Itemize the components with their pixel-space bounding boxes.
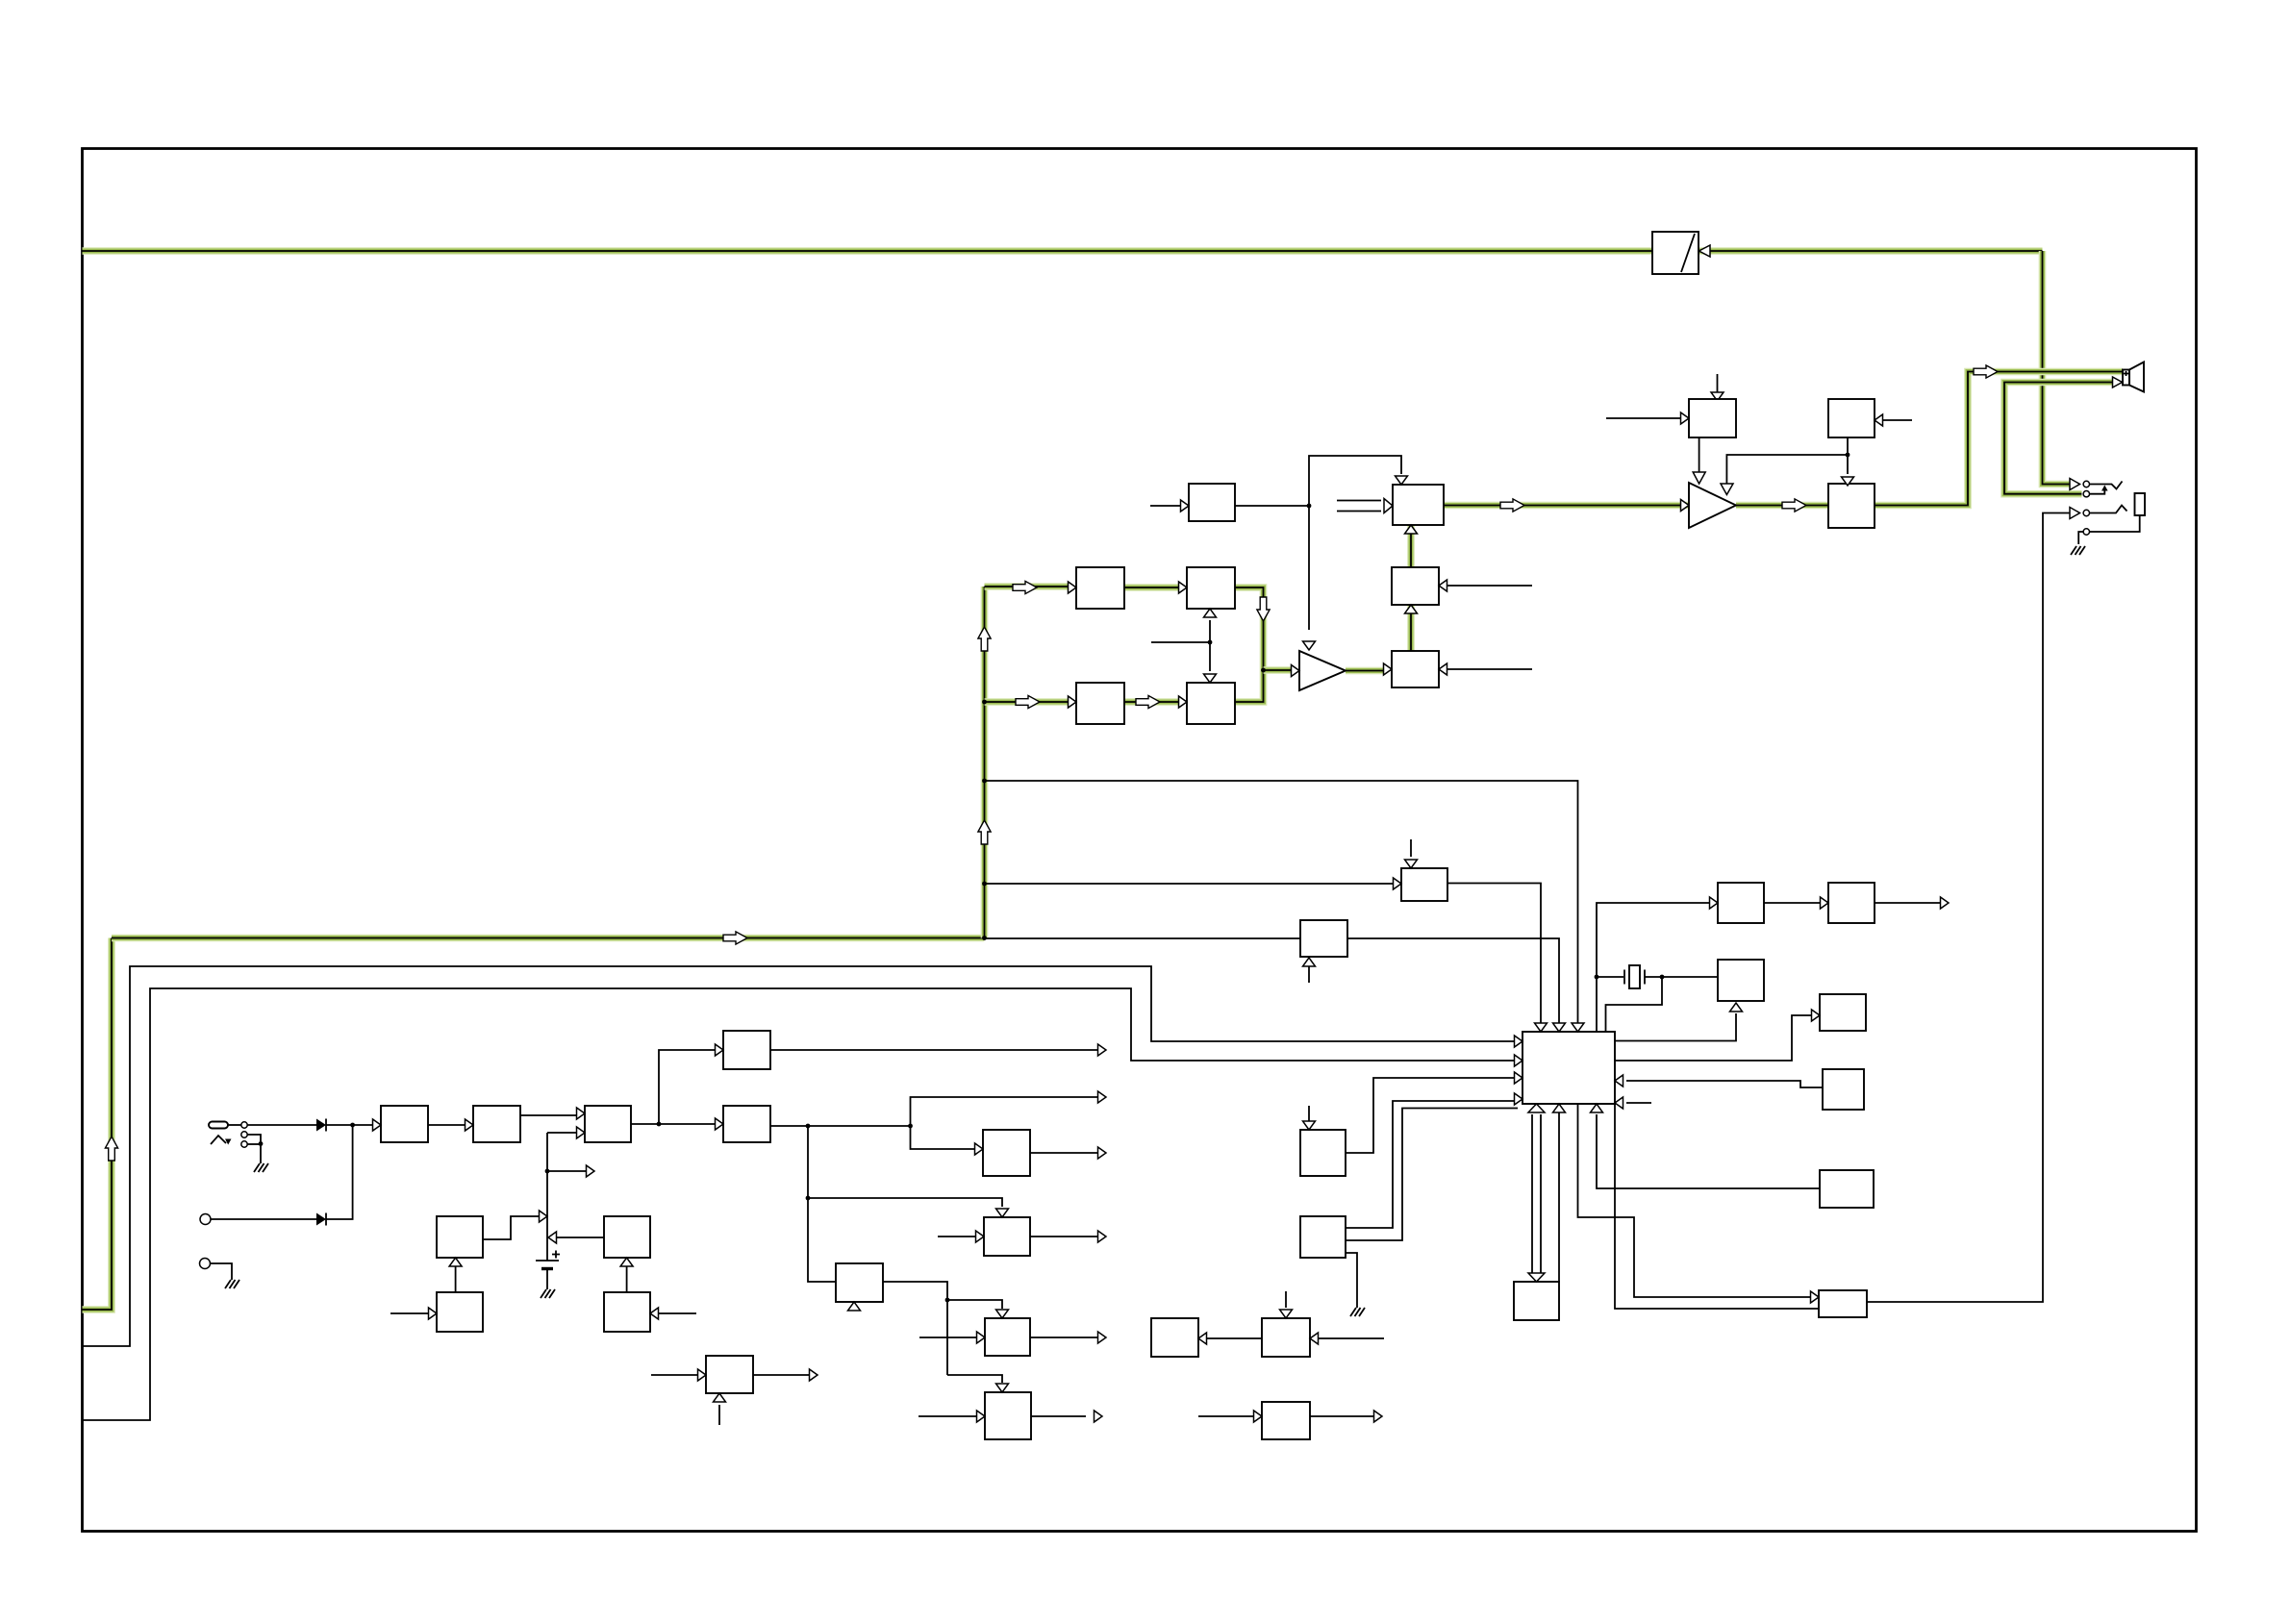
junction crystal right [1660, 975, 1665, 980]
wire G1 output stub [1030, 1337, 1097, 1338]
block U9 [604, 1292, 650, 1332]
block G1 [985, 1318, 1030, 1356]
pin arrow into U23a right [1439, 580, 1447, 591]
pin arrow into G1 [977, 1332, 986, 1343]
block G5 [1262, 1402, 1310, 1439]
wire net AIN lower branch to U19 [985, 698, 1069, 706]
wire IC bottom bus line a [1531, 1114, 1533, 1274]
wire U13 top stem [1410, 839, 1412, 857]
diode D1 [316, 1119, 326, 1132]
wire W1 out to right riser [1867, 513, 2070, 1303]
wire net U20 to corner [1235, 670, 1264, 702]
pin arrow down into G2 [996, 1384, 1009, 1392]
wire U10 output stub [753, 1374, 809, 1376]
wire box U14 out to IC top pin2 [1347, 938, 1559, 1023]
wire jack switch lower contact [248, 1143, 262, 1145]
pin arrow into U11 [975, 1143, 984, 1155]
wire node D up over to U23 top [1309, 456, 1401, 506]
pin arrow from U7 into node [548, 1232, 557, 1243]
block R2 [1300, 1216, 1346, 1258]
wire box U1 to U2 [428, 1124, 465, 1126]
pin arrow up below E2 [1730, 1003, 1743, 1012]
block W1 [1819, 1290, 1867, 1317]
wire junction left to amp top [1726, 455, 1848, 484]
wire box UM out to node D [1235, 505, 1309, 507]
pin arrow into G3 from G4 [1198, 1333, 1207, 1344]
wire net U23a up to U23 [1407, 525, 1415, 567]
jack J2 tip contact [2083, 510, 2089, 515]
IC pin arrow left3 [1515, 1072, 1523, 1084]
pin arrow into U18 [1179, 582, 1188, 593]
wire net SPK_OUT top run from left frame edge to right column [83, 247, 2043, 255]
pin arrow up divider into U18 [1204, 609, 1217, 617]
wire net U17 to U18 [1124, 584, 1178, 591]
flow arrow after U23 [1500, 499, 1524, 512]
pin arrow down into G1 [996, 1310, 1009, 1318]
pin arrow into U3 lower [577, 1127, 586, 1138]
block U22 [1392, 651, 1439, 687]
block V [1820, 1170, 1874, 1208]
wire net AMP_OUT from box U23 to amp U24 [1444, 502, 1689, 510]
wire U23a right input stub [1447, 585, 1532, 587]
pin arrow down into K1 top [1711, 392, 1724, 401]
junction green pin3 [982, 779, 987, 784]
wire IC right in2 stub [1626, 1102, 1651, 1104]
jack J2 sleeve contact [2083, 529, 2089, 535]
IC pin arrow right in1 [1615, 1075, 1623, 1087]
wire E2 bottom to IC right out1 [1615, 1013, 1736, 1041]
block G3 [1151, 1318, 1198, 1357]
stub arrow end G1 [1098, 1332, 1107, 1343]
pin arrow up into U23a [1405, 605, 1418, 613]
wire K1 bottom stem [1699, 437, 1700, 472]
diode D2 [316, 1213, 326, 1226]
wire node C1 vertical to box UT [808, 1126, 836, 1282]
pin arrow into U13 [1394, 878, 1402, 889]
wire R1 top stem [1308, 1106, 1310, 1121]
pin arrow down into U23 top [1396, 476, 1408, 485]
junction node C [908, 1124, 913, 1129]
block U2 [473, 1106, 520, 1142]
wire U8 to U6 riser [455, 1266, 457, 1292]
block U1 rectifier [381, 1106, 428, 1142]
block E1 [1718, 883, 1764, 923]
wire U8 input stub [390, 1312, 428, 1314]
jack J1 switch lever [2090, 482, 2123, 489]
flow arrow on AIN horizontal [723, 932, 747, 944]
jack J1 tip buffer triangle [2070, 479, 2080, 490]
IC pin arrow top2 [1553, 1023, 1566, 1032]
pin arrow into amp U24 [1681, 500, 1690, 512]
wire U14 bottom stub [1308, 958, 1310, 983]
pin arrow down into S [1528, 1273, 1545, 1282]
wire G4 top stem [1285, 1291, 1287, 1308]
wire junction to IC top pin3 [985, 781, 1578, 1023]
pin arrow down into U12 [996, 1209, 1009, 1217]
pin arrow into U3 upper [577, 1108, 586, 1119]
pin arrow up U9 to U7 [620, 1258, 633, 1266]
ground jack [2071, 546, 2085, 555]
wire net amp U21 out to U22 [1346, 667, 1383, 675]
transformer T1 [1652, 232, 1710, 274]
stub arrow end U5 [1098, 1044, 1107, 1056]
wire box U2 to U3 [520, 1114, 576, 1116]
connector contact c1 [241, 1122, 247, 1128]
IC pin arrow top1 [1535, 1023, 1548, 1032]
block E5 [1828, 883, 1875, 923]
block U11 [983, 1130, 1030, 1176]
wire U22 right input stub [1447, 668, 1532, 670]
flow arrow on AIN vertical low [105, 1137, 117, 1161]
wire net AIN upper branch to U17 [985, 583, 1069, 590]
pin arrow into U1 [373, 1119, 382, 1131]
pin arrow into U20 [1179, 696, 1188, 708]
block G2 [985, 1392, 1031, 1439]
wire junction down to UQ top [1847, 455, 1849, 474]
pin arrow down into amp U24 a [1693, 472, 1705, 484]
wire IC bottom bus line b [1540, 1114, 1542, 1274]
junction node A [350, 1123, 355, 1128]
wire G2 output stub [1031, 1415, 1086, 1417]
wire R2 out3 to ground [1346, 1253, 1357, 1308]
flow arrow after amp U24 [1782, 499, 1806, 512]
ground R2 [1350, 1308, 1365, 1316]
wire G5 input stub [1198, 1415, 1253, 1417]
wire net U18 to corner [1235, 587, 1264, 670]
block U8 [437, 1292, 483, 1332]
ground C1 [541, 1289, 555, 1298]
block U3 regulator [585, 1106, 631, 1142]
IC pin arrow top3 [1572, 1023, 1584, 1032]
wire U23 double input line upper [1337, 500, 1381, 502]
jack J1 ring contact [2083, 491, 2089, 497]
wire node B up to U5 [659, 1050, 715, 1124]
wire K1 input stub [1606, 417, 1680, 419]
wire crystal left tap [1597, 976, 1623, 978]
ground J3 [225, 1280, 239, 1288]
block U20 [1187, 683, 1235, 724]
stub arrow end cap tap [587, 1165, 595, 1177]
junction UT branch [945, 1298, 950, 1303]
wire net AIN left vertical from frame [83, 938, 113, 1311]
connector contact c2 [241, 1132, 247, 1137]
stub arrow end U11 [1098, 1147, 1107, 1159]
junction green lower branch [982, 700, 987, 705]
wire input J3 stub to ground [211, 1263, 233, 1280]
pin arrow into U10 [698, 1369, 707, 1381]
pin arrow into U22 [1384, 663, 1393, 675]
wire diode D1 node [248, 1124, 317, 1126]
pin arrow into U17 [1069, 582, 1077, 593]
wire net X junction to box U13 [985, 883, 1394, 885]
IC pin arrow bottom c [1591, 1104, 1603, 1112]
wire net U19 to U20 [1124, 698, 1178, 706]
wire U4 output to node C [770, 1125, 911, 1127]
pin arrow into K1 [1681, 412, 1690, 424]
block K2 [1828, 399, 1875, 437]
pin arrow into U5 [716, 1044, 724, 1056]
block UM [1189, 484, 1235, 521]
flow arrow down after U18 [1257, 597, 1270, 621]
wire branch to G1 top [947, 1300, 1002, 1309]
block U7 [604, 1216, 650, 1258]
pin arrow into K2 right [1875, 414, 1883, 426]
wire U12 output stub [1030, 1236, 1097, 1237]
pin arrow up U8 to U6 [449, 1258, 462, 1266]
pin arrow into U2 [466, 1119, 474, 1131]
wire U6 out jog to cap node [483, 1216, 539, 1239]
op-amp U21 power amp [1299, 651, 1346, 690]
wire box U13 out to IC top pin1 [1447, 884, 1541, 1024]
wire K2 input stub [1883, 419, 1912, 421]
wire IC corner down to W1 second input [1615, 1104, 1819, 1309]
wire net U22 up to U23a [1407, 605, 1415, 651]
block U4 [723, 1106, 770, 1142]
junction divider tap [1208, 640, 1213, 645]
wire node C up branch stub [911, 1097, 1098, 1126]
wire U7 input from cap node [556, 1237, 604, 1238]
wire R1 out to IC pin3 [1346, 1078, 1514, 1153]
IC pin arrow bottom bus [1528, 1104, 1545, 1112]
wire crystal right to E2 [1645, 976, 1718, 978]
jack J1 tip contact [2083, 481, 2089, 487]
jack J2 body [2135, 493, 2146, 515]
pin arrow down into U25 top [1842, 477, 1854, 486]
wire node C down branch to U11 [911, 1126, 975, 1149]
block R1 [1300, 1130, 1346, 1176]
pin arrow into G5 [1254, 1411, 1263, 1422]
wire E5 output stub [1875, 902, 1940, 904]
border frame [83, 149, 2197, 1532]
connector J2 input [200, 1214, 211, 1225]
wire box UT output [883, 1282, 947, 1375]
junction green U13 [982, 882, 987, 887]
pin arrow into U22 right [1439, 663, 1447, 675]
wire U12 input stub [938, 1236, 975, 1237]
junction crystal left [1595, 975, 1599, 980]
wire net SPKP box U25 to speaker [1875, 372, 2123, 506]
wire D1 to node A [326, 1124, 381, 1126]
block U25 [1828, 484, 1875, 528]
connector J3 input [200, 1259, 211, 1269]
jack J2 buffer triangle [2070, 508, 2080, 519]
flow arrow lower branch b [1136, 695, 1160, 708]
wire IC bottom plain pin to W1 [1578, 1104, 1811, 1297]
wire mid tap stub to divider [1151, 641, 1210, 643]
wire IC bottom pin to V [1597, 1114, 1820, 1188]
wire net into amp U21 [1264, 666, 1292, 674]
block U14 [1300, 920, 1347, 957]
stub arrow end G2 [1095, 1411, 1103, 1422]
pin arrow onto cap node [540, 1211, 548, 1222]
pin arrow into U9 [650, 1308, 659, 1319]
block U6 [437, 1216, 483, 1258]
wire cap node to U3 second input [547, 1132, 576, 1134]
junction node C1 [806, 1124, 811, 1129]
pin arrow into G4 from right [1310, 1333, 1319, 1344]
pin arrow into G2 [977, 1411, 986, 1422]
block UT [836, 1263, 883, 1302]
wire jack switch common [248, 1135, 262, 1163]
pin arrow into UM [1181, 500, 1190, 512]
pin arrow up into U23 [1405, 525, 1418, 534]
wire nested line B [83, 988, 1515, 1420]
wire D2 to node A riser [326, 1125, 353, 1219]
block U13 [1401, 868, 1447, 901]
junction green corner [982, 936, 987, 940]
IC pin arrow left4 [1515, 1093, 1523, 1105]
wire G1 input stub [919, 1337, 976, 1338]
wire R2 out2 under IC [1346, 1109, 1518, 1241]
block U5 [723, 1031, 770, 1069]
IC pin arrow right in2 [1615, 1097, 1623, 1109]
block U17 [1076, 567, 1124, 609]
wire net SPKM speaker return to jack ring [2004, 383, 2112, 494]
pin arrow into U8 [429, 1308, 438, 1319]
stub arrow end U10 [810, 1369, 818, 1381]
pin arrow into R1 top [1303, 1121, 1316, 1130]
wire U9 to U7 riser [626, 1266, 628, 1292]
block E4 [1823, 1069, 1864, 1110]
bus arrow into U23 [1384, 499, 1393, 513]
wire net AIN horizontal run [112, 935, 985, 942]
IC pin arrow left1 [1515, 1036, 1523, 1047]
wire G4 to G3 [1206, 1337, 1262, 1339]
IC pin arrow left2 [1515, 1055, 1523, 1066]
wire dc jack pin to diode D1 [228, 1124, 241, 1126]
ground dc jack [254, 1163, 268, 1172]
pin arrow down into amp U21 [1303, 641, 1316, 650]
junction amp input [1261, 668, 1266, 673]
junction node B [657, 1122, 662, 1127]
junction node D [1307, 504, 1312, 509]
flow arrow to speaker [1974, 365, 1998, 378]
flow arrow upper branch [1013, 581, 1037, 593]
stub arrow end G5 [1374, 1411, 1383, 1422]
wire IC bottom pin to S corner [1558, 1104, 1560, 1282]
wire branch to G2 top [947, 1375, 1002, 1383]
wire U10 bottom stub [718, 1405, 720, 1425]
crystal Y1 [1624, 965, 1645, 988]
wire R2 out1 to IC pin4 [1346, 1101, 1514, 1228]
jack J2 lever [2090, 506, 2127, 513]
wire node D down to amp U21 top [1308, 506, 1310, 630]
wire U14 input [985, 937, 1301, 939]
wire cap to ground [546, 1269, 548, 1289]
wire U11 output stub [1030, 1152, 1097, 1154]
speaker negative feed triangle [2113, 377, 2123, 387]
wire net AMP_OUT amp U24 to box U25 [1736, 502, 1828, 510]
stub arrow end node C [1098, 1091, 1107, 1103]
block E2 pll [1718, 960, 1764, 1001]
junction Q2 branch [806, 1196, 811, 1201]
block U12 [984, 1217, 1030, 1256]
stub arrow end E5 [1941, 897, 1950, 909]
flow arrow lower branch a [1016, 695, 1040, 708]
pin arrow into U12 [976, 1231, 985, 1242]
pin arrow up below UT [848, 1302, 861, 1311]
wire nested line A [83, 966, 1515, 1346]
wire cap tap stub [547, 1170, 587, 1172]
pin arrow into U4 [716, 1118, 724, 1130]
wire input J2 to diode D2 [212, 1218, 317, 1220]
junction K2 bottom [1846, 453, 1850, 458]
pin arrow into amp U21 [1292, 665, 1300, 677]
pin arrow into W1 [1811, 1291, 1820, 1303]
wire U9 input stub [659, 1312, 696, 1314]
wire G4 right input stub [1319, 1337, 1384, 1339]
pin arrow into E5 [1821, 897, 1829, 909]
pin arrow into E3 [1812, 1010, 1821, 1021]
block U23a [1392, 567, 1439, 605]
wire U5 output stub [770, 1049, 1097, 1051]
junction jack switch [259, 1141, 264, 1146]
block E3 [1820, 994, 1866, 1031]
wire K1 top stem [1717, 374, 1719, 392]
IC pin arrow bottom b [1553, 1104, 1566, 1112]
block U18 [1187, 567, 1235, 609]
wire net SPK_OUT vertical drop to jack [2043, 251, 2071, 485]
wire box UM input stub [1150, 505, 1180, 507]
block G4 [1262, 1318, 1310, 1357]
pin arrow up below U14 [1303, 958, 1316, 966]
IC U30 main controller [1522, 1032, 1615, 1104]
wire crystal net to buffer E1 [1597, 903, 1709, 1032]
block U23 mixer [1393, 485, 1444, 525]
wire E4 to IC right in1 [1626, 1081, 1823, 1087]
wire G2 input stub [919, 1415, 976, 1417]
wire branch to U12 top [808, 1198, 1002, 1207]
jack J1 switch arrow [2090, 486, 2108, 494]
wire U10 input [651, 1374, 697, 1376]
pin arrow down into G4 [1280, 1310, 1293, 1318]
block K1 [1689, 399, 1736, 437]
wire divider vertical U18-U20 [1209, 620, 1211, 671]
wire crystal second pin to IC [1606, 977, 1663, 1032]
speaker LS1 [2123, 362, 2144, 392]
pin arrow into U19 [1069, 696, 1077, 708]
connector contact c3 [241, 1141, 247, 1147]
connector switch lever [211, 1136, 232, 1145]
block U10 [706, 1356, 753, 1393]
wire sleeve contact to ground [2078, 532, 2083, 544]
stub arrow end U12 [1098, 1231, 1107, 1242]
wire K2 bottom to junction [1847, 437, 1849, 455]
block U19 [1076, 683, 1124, 724]
wire U3 out to U4 [631, 1123, 715, 1125]
wire net AIN main vertical [981, 587, 989, 938]
pin arrow down divider into U20 [1204, 674, 1217, 683]
flow arrow on main vertical b [978, 627, 991, 651]
flow arrow on main vertical a [978, 820, 991, 844]
wire IC right out2 to E3 [1615, 1015, 1811, 1061]
wire jack body to sleeve contact [2090, 515, 2140, 532]
pin arrow down into amp U24 b [1721, 484, 1733, 495]
pin arrow up below U10 [714, 1393, 726, 1402]
wire G5 output stub [1310, 1415, 1373, 1417]
connector DC jack pin [209, 1122, 228, 1129]
wire E1 to E5 [1764, 902, 1820, 904]
wire U23 double input line lower [1337, 511, 1381, 512]
pin arrow into E1 [1710, 897, 1719, 909]
wire cap node vertical [546, 1133, 548, 1261]
block S display connector [1514, 1282, 1559, 1320]
op-amp U24 speaker amp [1689, 483, 1736, 528]
junction cap tap [545, 1169, 550, 1174]
capacitor C1 polarized [536, 1251, 560, 1269]
pin arrow down into U13 [1405, 860, 1418, 868]
